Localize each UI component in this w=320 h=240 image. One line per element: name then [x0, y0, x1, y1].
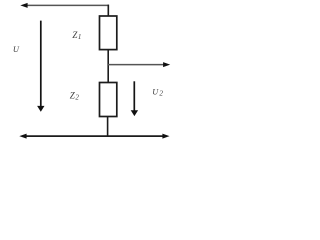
svg-text:U2: U2: [152, 88, 163, 98]
svg-text:U: U: [13, 45, 20, 54]
